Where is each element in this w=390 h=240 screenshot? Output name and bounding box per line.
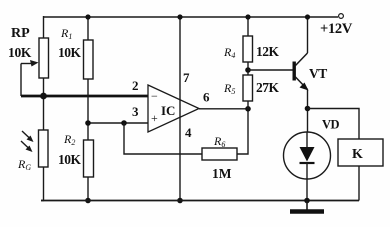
svg-text:10K: 10K (8, 45, 32, 60)
wire emitter to relay (308, 109, 360, 140)
photoresistor RG (39, 130, 49, 167)
relay coil K (338, 139, 383, 166)
resistor R4 12K (243, 36, 253, 62)
wire R1 top (87, 17, 89, 40)
svg-text:+: + (151, 111, 158, 125)
node base junction (245, 67, 251, 73)
wire ground rail (41, 200, 359, 202)
photoresistor RG arrows (21, 131, 34, 152)
wire RG bottom (41, 167, 44, 201)
svg-text:+12V: +12V (320, 21, 353, 37)
op-amp IC (148, 85, 199, 132)
wire RP top (43, 16, 45, 38)
wire R5 bottom to output node (247, 101, 249, 109)
node pin7 rail (177, 14, 182, 19)
node feedback tap (121, 120, 127, 126)
node output junction (245, 106, 251, 112)
svg-text:6: 6 (203, 90, 210, 105)
wire K bottom (358, 166, 360, 201)
node pin4 ground rail (177, 198, 183, 204)
potentiometer RP (39, 38, 49, 78)
resistor R2 (84, 140, 94, 177)
svg-text:4: 4 (185, 125, 192, 140)
svg-text:VT: VT (309, 66, 327, 81)
wire R4-R5 junction (247, 62, 249, 75)
node R2 ground rail (85, 198, 91, 204)
svg-text:3: 3 (132, 104, 139, 119)
node VD ground (304, 198, 310, 204)
node +12V terminal (339, 14, 344, 19)
wire R1 bottom to node (87, 79, 89, 140)
wire collector up (307, 17, 309, 53)
wire R4 top (247, 17, 249, 36)
wire inverting input (thick) (21, 95, 148, 98)
svg-text:27K: 27K (256, 80, 280, 95)
node junction RP bottom (40, 93, 47, 100)
svg-text:1M: 1M (212, 166, 232, 181)
svg-text:12K: 12K (256, 44, 280, 59)
svg-text:10K: 10K (58, 152, 82, 167)
svg-text:10K: 10K (58, 45, 82, 60)
wire emitter down (307, 90, 309, 133)
wire base (248, 69, 293, 71)
svg-text:2: 2 (132, 78, 139, 93)
transistor VT (294, 53, 308, 91)
wire wiper down (20, 64, 22, 97)
ground (290, 201, 324, 212)
wire R2 bottom (87, 177, 89, 201)
svg-text:IC: IC (161, 103, 175, 118)
node emitter junction (305, 106, 311, 112)
node divider to pin3 (85, 120, 91, 126)
wire non-inverting input (88, 122, 148, 124)
wire RP bottom to node (43, 78, 45, 130)
node R4 rail (245, 14, 250, 19)
resistor R1 (84, 40, 94, 79)
resistor R5 27K (243, 75, 253, 101)
svg-text:7: 7 (183, 70, 190, 85)
svg-text:VD: VD (322, 118, 340, 132)
wire supply pin7/pin4 vertical (179, 17, 181, 201)
wire R6 right to output (237, 109, 248, 154)
svg-text:K: K (352, 147, 363, 162)
svg-text:RP: RP (11, 26, 30, 41)
node collector rail (305, 14, 310, 19)
svg-text:−: − (151, 89, 158, 103)
resistor R6 (202, 148, 237, 160)
wire top supply rail (43, 16, 338, 18)
diode VD (284, 132, 331, 201)
RP wiper arrow (21, 60, 39, 67)
wire op-amp output (199, 108, 248, 110)
node R1 top rail (85, 14, 90, 19)
wire feedback down-right (124, 123, 202, 154)
